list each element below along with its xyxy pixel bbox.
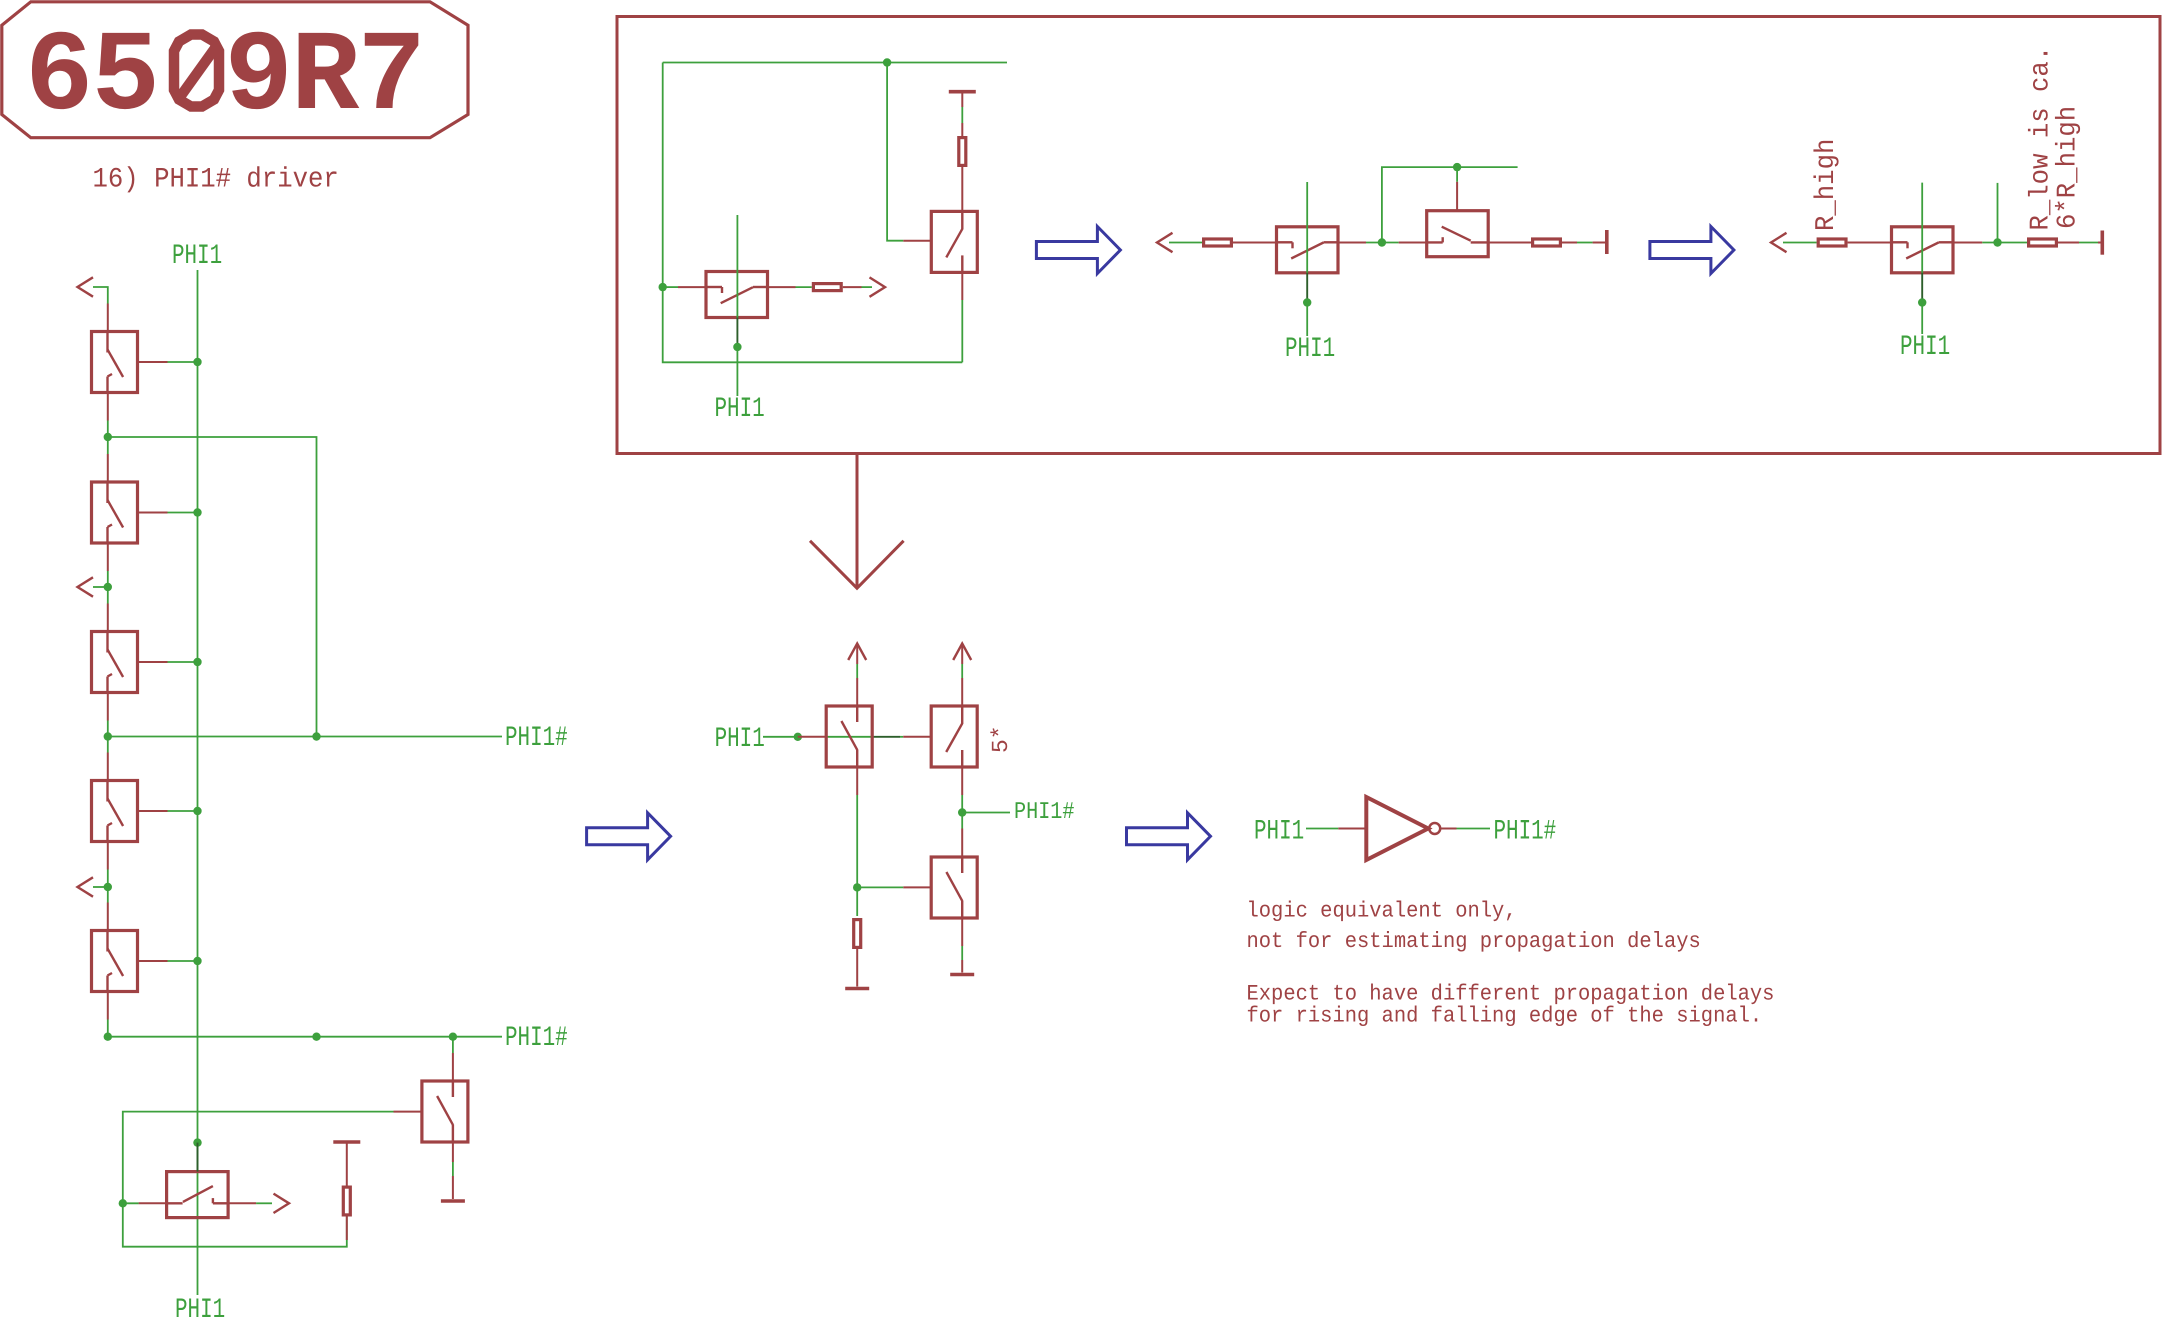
- pin Q4 gate: [138, 810, 168, 812]
- junction QA gate: [733, 343, 741, 351]
- resistor RI3: [1204, 239, 1232, 246]
- wire QB source to bottom line: [961, 300, 963, 362]
- pin QM2 gate: [903, 736, 931, 738]
- wire c3 node riser: [1997, 183, 1999, 243]
- wire QM2 source: [961, 795, 963, 829]
- block arrow A1: [1036, 227, 1120, 274]
- ground under RM1: [845, 988, 869, 990]
- pin QE left: [1399, 242, 1427, 244]
- wire node B out stub: [93, 586, 108, 588]
- svg-text:PHI1: PHI1: [175, 1295, 225, 1321]
- lead to arrow QM1: [856, 646, 858, 664]
- wire node A to right riser: [108, 437, 317, 737]
- pin QM3 drain: [961, 829, 963, 858]
- svg-text:PHI1: PHI1: [1285, 334, 1335, 365]
- resistor RM1: [854, 920, 861, 948]
- wire QM2 drain: [961, 664, 963, 678]
- power T-bar T1: [333, 1141, 360, 1143]
- transistor QC: [1277, 227, 1339, 273]
- wire QM3 source: [961, 946, 963, 960]
- pin Q5 drain: [107, 903, 109, 931]
- junction Q3 gate: [193, 658, 201, 666]
- inset border: [617, 17, 2160, 454]
- pin QM1 gate out: [872, 736, 900, 738]
- out arrow 3: [78, 877, 94, 896]
- svg-text:PHI1#: PHI1#: [505, 1023, 568, 1054]
- inverter U1 bubble: [1429, 823, 1440, 834]
- pin Q6 drain: [452, 1053, 454, 1081]
- pin R1 bottom lead: [346, 1217, 348, 1241]
- out arrow left c2: [1157, 233, 1173, 252]
- out arrow left c3: [1771, 233, 1787, 252]
- wire QD to RI6: [1982, 242, 2027, 244]
- wire QA right: [796, 286, 812, 288]
- wire net PHI1# line 2: [108, 1036, 502, 1038]
- wire inverter out: [1457, 828, 1491, 830]
- transistor QM3: [931, 857, 977, 918]
- wire QC gate label: [1306, 303, 1308, 337]
- pin QM1 drain up: [856, 678, 858, 706]
- junction QE gate: [1453, 163, 1461, 171]
- up arrow QM1: [848, 644, 866, 661]
- wire node C out stub: [93, 886, 108, 888]
- resistor RI2: [813, 284, 841, 291]
- junction c3 node: [1993, 238, 2001, 246]
- pin T lead: [1593, 242, 1605, 244]
- ground under QM3: [950, 974, 974, 976]
- wire Q5 to line2: [107, 1020, 109, 1037]
- pin QB gate: [903, 240, 931, 242]
- wire TI1 to RI1: [961, 107, 963, 123]
- pin QD right: [1953, 242, 1982, 244]
- pin RI1 bottom to QB: [961, 167, 963, 211]
- wire Q4 gate to rail: [168, 810, 198, 812]
- pin RI3 to QC: [1233, 242, 1277, 244]
- svg-text:5*: 5*: [988, 725, 1014, 753]
- svg-text:65 9R7: 65 9R7: [25, 14, 424, 143]
- transistor QM1: [826, 706, 872, 767]
- junction node PHI1# a: [104, 732, 112, 740]
- pin QC right: [1338, 242, 1366, 244]
- wire c3 left: [1783, 242, 1817, 244]
- transistor QD: [1892, 227, 1954, 273]
- pin QM3 gate: [903, 886, 931, 888]
- wire RI6 to T: [2079, 242, 2098, 244]
- wire net PHI1# line 1: [108, 736, 502, 738]
- wire top out stub: [93, 287, 108, 304]
- svg-text:PHI1#: PHI1#: [1014, 799, 1074, 826]
- wire QM1 source down: [856, 795, 858, 916]
- transistor QM2: [931, 706, 977, 767]
- pin Q4 source: [107, 842, 109, 870]
- pin Q1 source: [107, 393, 109, 421]
- pin Q6 gate: [394, 1111, 422, 1113]
- transistor Q1: [92, 332, 138, 393]
- wire PHI1 to QM1: [763, 736, 798, 738]
- pin QE right: [1488, 242, 1531, 244]
- pin QA right: [768, 286, 796, 288]
- pin Q7 left: [139, 1202, 167, 1204]
- resistor RI6 R_low: [2029, 239, 2057, 246]
- power T-bar TI1: [949, 91, 976, 93]
- pin RI6 right: [2058, 242, 2079, 244]
- wire QD gate label: [1921, 303, 1923, 335]
- wire QA gate label: [736, 347, 738, 396]
- logo frame octagon: [2, 2, 468, 138]
- inverter U1 triangle: [1366, 797, 1428, 860]
- svg-text:PHI1#: PHI1#: [505, 723, 568, 754]
- wire c2 node riser: [1382, 167, 1518, 242]
- svg-text:R_high: R_high: [1812, 139, 1842, 231]
- transistor QB: [931, 211, 977, 272]
- pin QM2 drain up: [961, 678, 963, 706]
- pin Q5 source: [107, 992, 109, 1020]
- svg-text:PHI1: PHI1: [1254, 817, 1304, 848]
- transistor Q5: [92, 931, 138, 992]
- pin QC gate: [1306, 273, 1308, 303]
- wire RI2 to arrow: [862, 286, 873, 288]
- svg-text:PHI1: PHI1: [172, 241, 222, 272]
- pin RI2 right: [843, 286, 862, 288]
- wire QE gate: [1456, 167, 1458, 182]
- rail terminal TI3: [2101, 231, 2105, 255]
- svg-text:PHI1#: PHI1#: [1494, 817, 1557, 848]
- wire Q1-Q2: [107, 421, 109, 455]
- wire c2 left: [1169, 242, 1202, 244]
- block arrow A4: [1127, 813, 1211, 860]
- pin Q6 source: [452, 1142, 454, 1162]
- junction Q4 gate: [193, 807, 201, 815]
- big arrow down from inset: [856, 454, 859, 589]
- svg-text:PHI1: PHI1: [1900, 332, 1950, 363]
- wire QM1 gate through: [826, 736, 872, 738]
- junction Q6 drain on line2: [449, 1033, 457, 1041]
- pin QE gate: [1456, 182, 1458, 211]
- transistor Q3: [92, 632, 138, 693]
- wire Q3-Q4: [107, 721, 109, 753]
- wire Q5 gate to rail: [168, 960, 198, 962]
- ground under Q6: [441, 1200, 465, 1202]
- rail terminal TI2: [1605, 230, 1609, 254]
- junction riser on line1: [312, 732, 320, 740]
- svg-text:PHI1: PHI1: [715, 394, 765, 425]
- svg-text:not for estimating propagation: not for estimating propagation delays: [1247, 929, 1701, 954]
- junction node A: [104, 433, 112, 441]
- wire Q3 gate to rail: [168, 661, 198, 663]
- transistor Q2: [92, 482, 138, 543]
- pin QA gate: [736, 318, 738, 348]
- wire QD gate through: [1921, 183, 1923, 273]
- wire Q2-Q3: [107, 571, 109, 604]
- svg-text:PHI1: PHI1: [715, 724, 765, 755]
- transistor Q6: [422, 1081, 468, 1142]
- wire Q6 gate run: [123, 1112, 394, 1247]
- pin Q3 source: [107, 693, 109, 721]
- pin inverter in: [1338, 828, 1366, 830]
- junction node C: [104, 883, 112, 891]
- pin Q1 gate: [138, 361, 168, 363]
- resistor R1: [343, 1187, 350, 1215]
- junction Q1 gate: [193, 358, 201, 366]
- junction Q7 gate on rail: [193, 1138, 201, 1146]
- junction Q5 gate: [193, 957, 201, 965]
- wire QM1 drain: [856, 664, 858, 678]
- svg-text:R_low is ca.: R_low is ca.: [2027, 46, 2057, 231]
- pin T1 lead: [346, 1142, 348, 1186]
- wire Q7 right: [256, 1202, 272, 1204]
- up arrow QM2: [953, 644, 971, 661]
- out arrow QA: [870, 277, 886, 296]
- junction c2 node: [1378, 238, 1386, 246]
- pin RI1 top: [961, 123, 963, 136]
- wire to QM2 gate: [900, 736, 903, 738]
- transistor Q4: [92, 781, 138, 842]
- block arrow A2: [1650, 227, 1734, 274]
- wire Q6 source: [452, 1162, 454, 1176]
- resistor RI1: [959, 138, 966, 166]
- wire QB gate drop: [887, 63, 903, 241]
- wire Q6 drain: [452, 1037, 454, 1053]
- resistor RI5 R_high: [1818, 239, 1846, 246]
- wire QA gate through: [736, 215, 738, 318]
- wire inverter in: [1306, 828, 1338, 830]
- wire Q4-Q5: [107, 870, 109, 903]
- wire QC gate through: [1306, 182, 1308, 273]
- wire QC to node: [1366, 242, 1399, 244]
- pin QM1 gate: [798, 736, 826, 738]
- pin QB source: [961, 272, 963, 300]
- wire PHI1 rail vertical: [197, 270, 199, 1295]
- wire left rail down: [663, 63, 963, 363]
- pin Q3 drain: [107, 604, 109, 632]
- pin RM1 bottom: [856, 949, 858, 987]
- junction top line: [883, 58, 891, 66]
- wire PHI1# mid label: [962, 812, 1010, 814]
- junction QA left: [659, 283, 667, 291]
- out arrow right Q7: [274, 1194, 290, 1213]
- resistor RI4: [1533, 239, 1561, 246]
- junction Q7 left: [119, 1199, 127, 1207]
- pin Q1 drain: [107, 304, 109, 332]
- junction QD gate: [1918, 298, 1926, 306]
- pin gnd lead QM3: [961, 960, 963, 973]
- wire QM3 gate: [857, 886, 903, 888]
- pin RI5 to QD: [1848, 242, 1892, 244]
- pin Q2 source: [107, 543, 109, 571]
- pin TI1 lead: [961, 92, 963, 107]
- pin gnd lead: [452, 1176, 454, 1199]
- junction riser on line2: [312, 1033, 320, 1041]
- pin QM2 source: [961, 767, 963, 795]
- pin Q7 gate: [197, 1143, 199, 1172]
- lead to arrow QM2: [961, 646, 963, 664]
- pin T lead c3: [2098, 242, 2101, 244]
- pin Q2 drain: [107, 454, 109, 482]
- pin QM1 source: [856, 767, 858, 795]
- transistor QE: [1427, 211, 1489, 257]
- transistor QA: [706, 272, 768, 318]
- svg-text:16) PHI1# driver: 16) PHI1# driver: [93, 165, 339, 196]
- wire Q2 gate to rail: [168, 512, 198, 514]
- pin Q3 gate: [138, 661, 168, 663]
- logo slashed-zero glyph: [174, 35, 219, 107]
- pin inverter out: [1440, 828, 1456, 830]
- wire QA left: [663, 286, 678, 288]
- junction PHI1# mid: [958, 808, 966, 816]
- junction QM1 gate: [794, 733, 802, 741]
- pin Q5 gate: [138, 960, 168, 962]
- junction line2 left: [104, 1033, 112, 1041]
- pin Q4 drain: [107, 753, 109, 781]
- pin QM3 source: [961, 918, 963, 946]
- pin Q2 gate: [138, 512, 168, 514]
- pin QD gate: [1921, 273, 1923, 303]
- junction Q2 gate: [193, 508, 201, 516]
- wire top line: [663, 62, 1007, 64]
- block arrow A3: [587, 813, 671, 860]
- svg-text:for rising and falling edge of: for rising and falling edge of the signa…: [1247, 1003, 1763, 1028]
- out arrow 2: [78, 577, 94, 596]
- junction node B: [104, 583, 112, 591]
- wire RI4 to T: [1577, 242, 1593, 244]
- pin QA left: [678, 286, 706, 288]
- svg-text:6*R_high: 6*R_high: [2054, 106, 2084, 229]
- svg-text:logic equivalent only,: logic equivalent only,: [1247, 899, 1517, 924]
- wire Q1 gate to rail: [168, 361, 198, 363]
- junction QC gate: [1303, 298, 1311, 306]
- wire Q7 left: [123, 1202, 139, 1204]
- junction QM3 gate node: [853, 883, 861, 891]
- pin RI4 right: [1562, 242, 1577, 244]
- pin Q7 right: [228, 1202, 256, 1204]
- transistor Q7: [167, 1172, 229, 1218]
- out arrow 1: [78, 277, 94, 296]
